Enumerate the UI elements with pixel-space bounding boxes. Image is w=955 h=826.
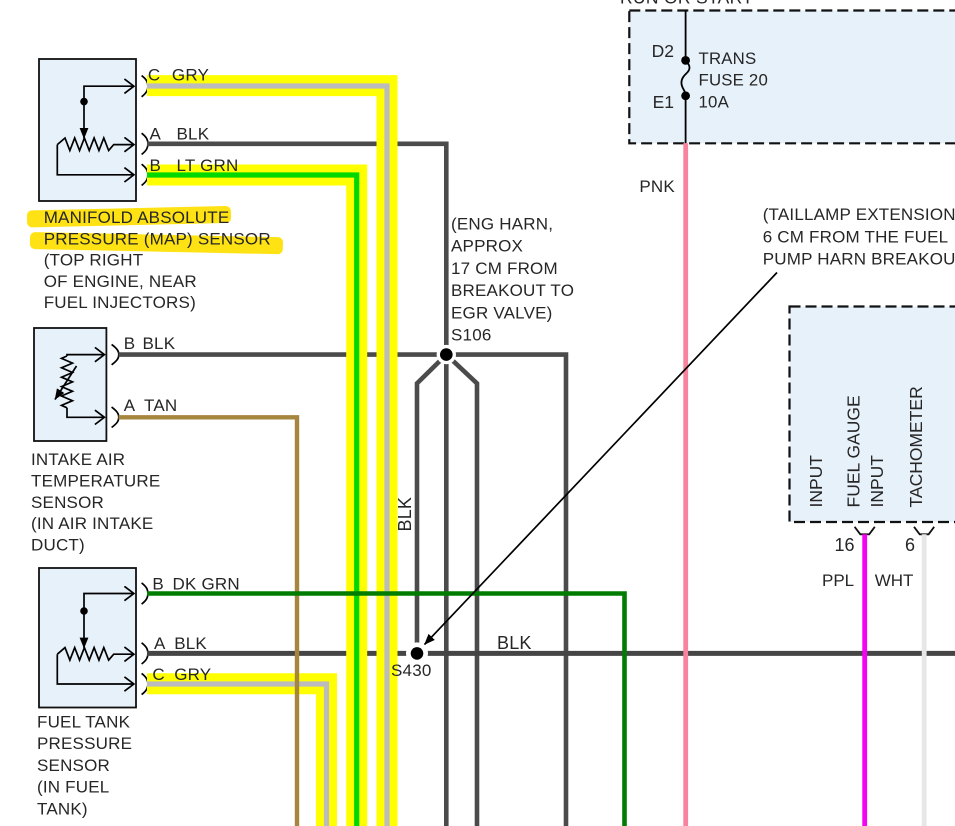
svg-text:B: B xyxy=(150,156,162,175)
pin D2 terminal dot xyxy=(681,56,690,65)
svg-text:TEMPERATURE: TEMPERATURE xyxy=(31,471,160,490)
wire BLK S106 centre branch down xyxy=(444,355,449,826)
svg-text:PNK: PNK xyxy=(639,177,675,196)
highlighter stroke over PRESSURE (MAP) SENSOR xyxy=(30,232,283,254)
svg-text:SENSOR: SENSOR xyxy=(37,756,110,775)
junction dots + arrow xyxy=(406,273,777,665)
highlighter strokes xyxy=(27,206,283,254)
svg-text:A: A xyxy=(150,125,162,144)
MAP potentiometer resistor xyxy=(57,138,133,151)
fuse F1 TRANS FUSE 20 10A (wavy element) xyxy=(681,61,689,96)
svg-text:BLK: BLK xyxy=(143,334,176,353)
svg-text:6: 6 xyxy=(905,535,915,555)
svg-text:(IN FUEL: (IN FUEL xyxy=(37,778,109,797)
svg-text:PPL: PPL xyxy=(822,571,854,590)
FTP potentiometer resistor xyxy=(57,648,133,661)
IAT thermistor resistor xyxy=(62,356,73,408)
svg-text:E1: E1 xyxy=(653,92,674,112)
svg-text:B: B xyxy=(124,334,136,353)
svg-text:(IN AIR INTAKE: (IN AIR INTAKE xyxy=(31,514,153,533)
wire BLK S106 left branch down to S430 xyxy=(417,355,446,654)
IAT pin B connector arc xyxy=(112,344,119,364)
MAP wiper node dot xyxy=(80,98,88,106)
splice S430 junction (white halo + dot) xyxy=(406,642,428,664)
svg-text:BLK: BLK xyxy=(177,125,210,144)
splice S106 junction (white halo + dot) xyxy=(437,345,456,364)
svg-text:INPUT: INPUT xyxy=(806,455,826,508)
svg-text:INTAKE AIR: INTAKE AIR xyxy=(31,450,125,469)
highlighter stroke over MANIFOLD ABSOLUTE xyxy=(27,206,231,228)
FTP pin B connector arc xyxy=(142,583,148,604)
sensor boxes xyxy=(34,59,148,708)
svg-text:DUCT): DUCT) xyxy=(31,536,85,555)
wire PNK from fuse E1 down xyxy=(683,143,688,826)
wire LT GRN from MAP pin B xyxy=(147,175,357,826)
MAP sensor B_MAP (box) xyxy=(39,59,136,201)
svg-text:(TOP RIGHT: (TOP RIGHT xyxy=(44,251,144,270)
svg-text:OF ENGINE, NEAR: OF ENGINE, NEAR xyxy=(44,272,197,291)
IAT sensor B_IAT (box) xyxy=(34,328,106,441)
svg-text:10A: 10A xyxy=(699,93,730,112)
MAP wiper arrow onto resistor xyxy=(83,104,85,139)
svg-text:GRY: GRY xyxy=(174,665,211,684)
svg-text:FUEL TANK: FUEL TANK xyxy=(37,712,131,731)
wire GRY from MAP pin C xyxy=(147,86,387,826)
svg-text:S430: S430 xyxy=(391,661,432,680)
MAP pin C connector arc xyxy=(142,76,148,97)
wire PPL from cluster pin 16 xyxy=(862,534,867,826)
IAT wire to pin A xyxy=(67,408,104,418)
highlight band for LT GRN wire from MAP pin B xyxy=(147,175,357,826)
FTP wiper arrow onto resistor xyxy=(83,613,85,648)
svg-text:TAN: TAN xyxy=(144,396,177,415)
ignition fuse block U_FUSE (dashed box, RUN OR START) xyxy=(620,0,955,143)
svg-text:WHT: WHT xyxy=(875,571,914,590)
highlight band for GRY wire from FTP pin C xyxy=(147,684,327,826)
IAT thermistor arrow xyxy=(55,366,77,400)
svg-text:16: 16 xyxy=(834,535,854,555)
svg-text:A: A xyxy=(124,396,136,415)
FTP wiper wire to pin B xyxy=(84,594,134,611)
wire fuse feed xyxy=(685,11,687,61)
svg-text:SENSOR: SENSOR xyxy=(31,493,104,512)
MAP wiper wire to pin C xyxy=(84,86,134,101)
FTP resistor low-end wire to pin C xyxy=(57,654,133,684)
FTP wiper node dot xyxy=(80,607,88,615)
svg-text:RUN OR START: RUN OR START xyxy=(620,0,753,8)
svg-text:TACHOMETER: TACHOMETER xyxy=(906,386,926,507)
wire TAN from IAT pin A xyxy=(119,417,298,826)
svg-text:BREAKOUT TO: BREAKOUT TO xyxy=(451,281,574,300)
FTP pin A connector arc xyxy=(142,643,148,664)
pin E1 terminal dot xyxy=(681,91,690,100)
wire BLK S106 right branch down xyxy=(446,355,477,826)
fuel tank pressure sensor B_FTP (box) xyxy=(39,568,136,708)
svg-text:FUEL INJECTORS): FUEL INJECTORS) xyxy=(44,293,196,312)
svg-text:BLK: BLK xyxy=(174,634,207,653)
svg-text:GRY: GRY xyxy=(172,66,209,85)
svg-text:6 CM FROM THE FUEL: 6 CM FROM THE FUEL xyxy=(763,228,949,247)
highlight band for GRY wire from MAP pin C xyxy=(147,86,387,826)
svg-text:D2: D2 xyxy=(652,41,674,61)
MAP pin B connector arc xyxy=(142,164,148,185)
svg-text:FUEL GAUGE: FUEL GAUGE xyxy=(844,395,864,507)
MAP resistor low-end wire to pin B xyxy=(57,145,133,175)
svg-text:17 CM FROM: 17 CM FROM xyxy=(451,259,558,278)
svg-text:INPUT: INPUT xyxy=(867,455,887,508)
connector cavity pin 16 xyxy=(855,527,875,535)
svg-text:TANK): TANK) xyxy=(37,800,88,819)
wire BLK from S106 to EGR breakout (corner down) xyxy=(446,355,566,826)
wire WHT from cluster pin 6 xyxy=(922,534,927,826)
connector cavity pin 6 xyxy=(914,527,934,535)
svg-text:TRANS: TRANS xyxy=(699,49,757,68)
svg-text:B: B xyxy=(152,575,164,594)
svg-text:FUSE 20: FUSE 20 xyxy=(699,71,768,90)
svg-text:EGR VALVE): EGR VALVE) xyxy=(451,303,553,322)
svg-text:C: C xyxy=(148,66,160,85)
svg-text:S106: S106 xyxy=(451,326,492,345)
wire fuse output xyxy=(685,96,687,144)
wire BLK from IAT pin B to S106 xyxy=(119,352,447,357)
wire BLK from MAP pin A down to S106 xyxy=(147,144,446,355)
IAT pin A connector arc xyxy=(112,407,119,427)
wire DK GRN from FTP pin B xyxy=(147,594,625,826)
wire GRY from FTP pin C xyxy=(147,684,327,826)
svg-text:PUMP HARN BREAKOUT): PUMP HARN BREAKOUT) xyxy=(763,250,955,269)
FTP pin C connector arc xyxy=(142,673,148,694)
wire BLK from FTP pin A across to right edge (through S430) xyxy=(147,651,955,656)
MAP pin A connector arc xyxy=(142,133,148,154)
callout arrow from TAILLAMP note to S430 xyxy=(425,273,778,645)
IAT wire to pin B xyxy=(67,355,104,356)
svg-text:MANIFOLD ABSOLUTE: MANIFOLD ABSOLUTE xyxy=(44,208,230,227)
svg-text:LT GRN: LT GRN xyxy=(177,156,239,175)
svg-text:PRESSURE: PRESSURE xyxy=(37,734,132,753)
svg-text:BLK: BLK xyxy=(497,633,532,653)
svg-text:BLK: BLK xyxy=(395,497,415,532)
svg-text:DK GRN: DK GRN xyxy=(173,575,240,594)
instrument cluster connector U_IPC (dashed box) xyxy=(790,307,955,591)
svg-text:A: A xyxy=(154,634,166,653)
svg-text:APPROX: APPROX xyxy=(451,237,523,256)
svg-text:PRESSURE (MAP) SENSOR: PRESSURE (MAP) SENSOR xyxy=(44,229,271,248)
svg-text:C: C xyxy=(152,665,164,684)
svg-text:(ENG HARN,: (ENG HARN, xyxy=(451,215,553,234)
svg-text:(TAILLAMP EXTENSION HARN,: (TAILLAMP EXTENSION HARN, xyxy=(763,205,955,224)
